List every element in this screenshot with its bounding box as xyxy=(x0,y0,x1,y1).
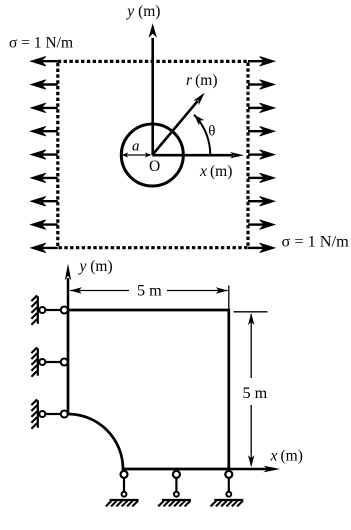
right height dimension line 5 m xyxy=(248,313,254,467)
top width dimension line 5 m xyxy=(70,287,228,293)
svg-text:x (m): x (m) xyxy=(270,447,303,464)
circular hole of radius a xyxy=(121,124,183,186)
right tension arrow 8 xyxy=(248,220,275,229)
extension line above right dimension xyxy=(234,311,268,313)
svg-text:5 m: 5 m xyxy=(137,282,162,300)
x axis (bottom figure) xyxy=(229,466,280,473)
y axis (bottom figure) xyxy=(65,264,71,311)
svg-text:σ = 1 N/m: σ = 1 N/m xyxy=(282,232,350,251)
left roller support 3 xyxy=(31,399,67,428)
svg-text:r (m): r (m) xyxy=(186,72,218,89)
x axis (top figure) xyxy=(152,152,244,158)
right tension arrow 9 xyxy=(248,243,275,252)
quarter plate outline with quarter-circle hole xyxy=(68,310,229,469)
right tension arrow 1 xyxy=(248,57,275,66)
left tension arrow 2 xyxy=(31,80,58,89)
right tension arrow 6 xyxy=(248,173,275,182)
left tension arrow 8 xyxy=(31,220,58,229)
bottom roller support 1 xyxy=(106,471,139,507)
left roller support 1 xyxy=(31,295,67,324)
right tension arrow 2 xyxy=(248,80,275,89)
svg-text:5 m: 5 m xyxy=(243,384,268,402)
right tension arrow 3 xyxy=(248,103,275,112)
bottom roller support 3 xyxy=(211,471,244,507)
right tension arrow 7 xyxy=(248,197,275,206)
svg-text:x (m): x (m) xyxy=(199,163,232,180)
extension line right of top dimension xyxy=(228,286,230,311)
svg-text:a: a xyxy=(132,139,140,155)
left roller support 2 xyxy=(31,347,67,376)
dashed square plate boundary (top figure) xyxy=(58,61,248,247)
hole radius dimension a (double arrow) xyxy=(122,152,152,157)
left tension arrow 7 xyxy=(31,197,58,206)
right tension arrow 4 xyxy=(248,127,275,136)
svg-text:θ: θ xyxy=(208,123,215,139)
svg-text:y (m): y (m) xyxy=(78,258,113,275)
left tension arrow 9 xyxy=(31,243,58,252)
right tension arrow 5 xyxy=(248,150,275,159)
theta angle arc xyxy=(194,115,210,155)
r vector arrow xyxy=(152,93,204,155)
left tension arrow 3 xyxy=(31,103,58,112)
svg-text:O: O xyxy=(149,158,160,175)
svg-text:y (m): y (m) xyxy=(125,3,160,20)
bottom roller support 2 xyxy=(158,471,191,507)
left tension arrow 5 xyxy=(31,150,58,159)
svg-text:σ = 1 N/m: σ = 1 N/m xyxy=(9,34,73,51)
left tension arrow 4 xyxy=(31,127,58,136)
left tension arrow 6 xyxy=(31,173,58,182)
y axis (top figure) xyxy=(149,23,157,155)
left tension arrow 1 xyxy=(31,57,58,66)
